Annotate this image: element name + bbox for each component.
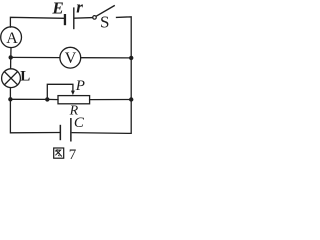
wire bottom-left: capacitor to left rail	[10, 99, 59, 133]
junction dot below lamp	[8, 97, 12, 101]
wire switch to top-right corner	[117, 17, 132, 58]
switch S pivot	[93, 16, 97, 20]
junction dot right rail bottom	[129, 97, 133, 101]
ammeter A	[1, 27, 22, 48]
wire slider loop	[47, 84, 73, 99]
svg-text:A: A	[6, 30, 18, 47]
wire right rail mid	[130, 58, 132, 100]
wire top-left: ammeter top to battery	[10, 17, 63, 27]
svg-text:L: L	[20, 68, 30, 84]
wire right rail lower + bottom right	[72, 100, 131, 134]
wire junction to ammeter	[10, 48, 12, 58]
svg-text:S: S	[100, 13, 109, 32]
wire voltmeter to right rail	[81, 57, 132, 59]
battery E r	[64, 7, 75, 29]
voltmeter V	[60, 47, 81, 68]
slider arrow P	[71, 91, 75, 96]
resistor R body	[58, 96, 90, 104]
junction dot rheostat loop	[45, 97, 49, 101]
wire resistor to right rail	[90, 99, 132, 101]
wire rheostat junction to resistor	[47, 98, 58, 100]
wire left rail: junction to lamp	[9, 88, 11, 100]
svg-text:P: P	[75, 78, 85, 94]
lamp L	[2, 69, 21, 88]
capacitor C	[60, 118, 72, 142]
junction dot below ammeter	[9, 55, 13, 59]
wire lamp to junction below ammeter	[10, 57, 12, 68]
wire lamp junction to rheostat junction	[10, 98, 47, 100]
svg-text:V: V	[65, 50, 77, 67]
switch S blade	[96, 6, 114, 17]
junction dot right rail top	[129, 56, 133, 60]
wire junction to voltmeter	[11, 56, 60, 58]
wire battery to switch	[75, 17, 93, 20]
svg-text:R: R	[69, 104, 79, 119]
caption glyph tu (figure)	[54, 148, 64, 158]
svg-text:r: r	[76, 0, 83, 17]
svg-text:E: E	[51, 0, 63, 18]
svg-text:7: 7	[69, 147, 77, 163]
